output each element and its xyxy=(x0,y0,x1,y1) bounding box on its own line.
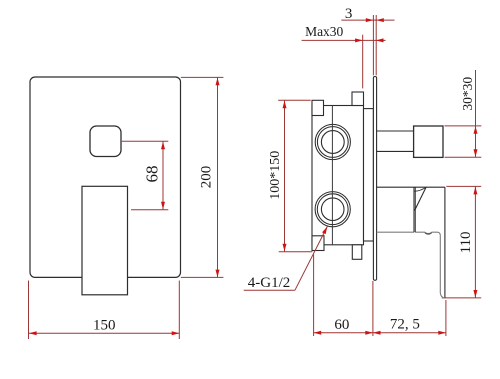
svg-text:150: 150 xyxy=(93,317,116,333)
svg-text:72, 5: 72, 5 xyxy=(390,317,420,333)
svg-text:68: 68 xyxy=(143,166,162,183)
svg-text:200: 200 xyxy=(199,166,215,189)
svg-text:100*150: 100*150 xyxy=(268,151,283,200)
svg-text:3: 3 xyxy=(345,6,353,22)
svg-text:30*30: 30*30 xyxy=(460,77,475,111)
svg-text:60: 60 xyxy=(334,317,349,333)
svg-text:4-G1/2: 4-G1/2 xyxy=(248,275,291,291)
svg-text:110: 110 xyxy=(458,232,474,254)
svg-text:Max30: Max30 xyxy=(305,24,343,39)
